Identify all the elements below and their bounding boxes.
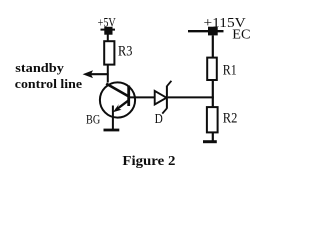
- svg-text:EC: EC: [232, 27, 250, 42]
- transistor BG collector lead: [106, 84, 128, 97]
- resistor R2: [207, 107, 218, 132]
- diode D triangle: [155, 91, 167, 105]
- diode D cathode bar (zener): [166, 86, 168, 109]
- transistor BG emitter arrowhead: [113, 104, 122, 112]
- svg-text:BG: BG: [86, 112, 101, 126]
- svg-text:D: D: [155, 111, 163, 126]
- wire R3 to transistor collector: [107, 65, 109, 83]
- transistor BG base bar: [127, 86, 130, 107]
- diode D cathode top hook: [167, 81, 172, 86]
- terminal bar below R2: [203, 140, 217, 143]
- wire emitter down: [112, 106, 114, 131]
- wire R1 to node: [212, 80, 214, 108]
- transistor BG emitter lead: [116, 101, 128, 110]
- arrowhead standby control line: [83, 70, 93, 78]
- wire base to diode: [129, 96, 155, 98]
- wire +5V node to R3: [107, 35, 109, 43]
- svg-text:R3: R3: [118, 43, 133, 59]
- svg-text:Figure 2: Figure 2: [122, 153, 175, 168]
- power node square (+5V): [104, 27, 112, 35]
- resistor R3: [104, 41, 114, 64]
- wire standby control line: [86, 73, 109, 75]
- emitter ground bar: [104, 129, 120, 132]
- svg-text:control line: control line: [15, 76, 82, 91]
- power node square (+115V): [208, 27, 218, 36]
- svg-text:R1: R1: [223, 62, 237, 78]
- power rail bar (+5V): [101, 29, 116, 31]
- wire R2 to terminal: [212, 132, 214, 141]
- wire +115V to R1: [212, 35, 214, 58]
- resistor R1: [207, 58, 217, 80]
- wire diode to divider node: [168, 96, 214, 98]
- diode D cathode bottom hook: [162, 108, 167, 113]
- transistor BG body circle: [100, 82, 135, 117]
- power rail bar (+115V): [188, 30, 224, 32]
- svg-text:R2: R2: [223, 110, 238, 126]
- svg-text:standby: standby: [15, 60, 64, 75]
